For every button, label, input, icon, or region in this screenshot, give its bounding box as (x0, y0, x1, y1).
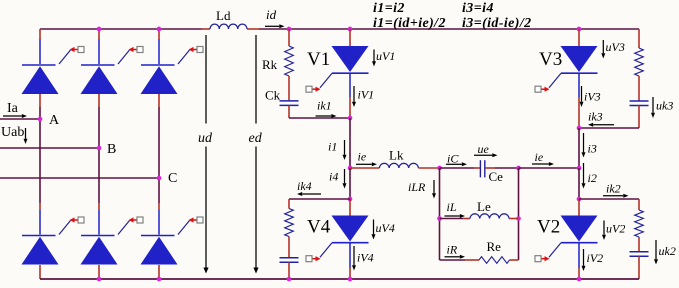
svg-text:iV3: iV3 (584, 90, 601, 104)
wire ik2 (579, 198, 639, 200)
capacitor Ce (480, 160, 484, 177)
wire col1 below thyristor (39, 94, 41, 107)
current iV2 arrow (582, 249, 586, 271)
wire col2 to bottom thyristor (98, 210, 100, 235)
wire col1 to bottom thyristor (39, 210, 41, 235)
label V1 (307, 49, 330, 70)
voltage ud arrow lower (203, 147, 208, 274)
label V2 (537, 217, 560, 238)
svg-text:Le: Le (477, 199, 491, 214)
gate bridge top 2 (118, 47, 143, 65)
inductor Le (470, 214, 509, 219)
wire Rk4-Ck4 lead (288, 237, 290, 259)
label Ce (489, 169, 504, 184)
junction V3 ik3 (577, 126, 582, 131)
junction rail bottom col3 (157, 277, 162, 282)
svg-text:Ld: Ld (216, 8, 231, 23)
junction V3 ie (577, 166, 582, 171)
svg-text:V3: V3 (539, 49, 562, 70)
wire ik3 (579, 127, 639, 129)
label ik4 (297, 179, 312, 193)
thyristor V3 (561, 46, 598, 73)
label uk3 (656, 99, 673, 113)
wire Re left lead (465, 259, 479, 261)
wire top rail left (40, 28, 202, 30)
label Ld (216, 8, 231, 23)
resistor Rk2 (635, 210, 644, 237)
wire V3 col mid (578, 128, 580, 168)
wire Re right lead (510, 259, 519, 261)
svg-text:C: C (168, 171, 177, 186)
gate bridge bottom 2 (118, 217, 143, 235)
gate bridge top 3 (178, 47, 203, 65)
svg-text:V1: V1 (307, 49, 330, 70)
current iC arrow (446, 162, 467, 166)
svg-text:Ck: Ck (265, 88, 281, 103)
label ud (198, 131, 213, 146)
gate bridge top 1 (59, 47, 84, 65)
gate V2 (535, 243, 561, 262)
junction top rail col2 (97, 27, 102, 32)
wire col2 phase to bottom (98, 148, 100, 203)
svg-text:V4: V4 (307, 217, 331, 238)
thyristor V4 (332, 216, 369, 243)
current id arrow (265, 24, 285, 28)
svg-text:i3: i3 (588, 142, 597, 156)
label A (49, 113, 60, 128)
label Ck (265, 88, 281, 103)
svg-text:iR: iR (447, 243, 458, 257)
voltage uV4 arrow (372, 220, 376, 240)
label uV3 (606, 40, 625, 54)
svg-text:ie: ie (358, 150, 367, 164)
current ik4 arrow (297, 192, 321, 196)
voltage uk2 arrow (654, 240, 658, 265)
svg-text:uV2: uV2 (606, 222, 625, 236)
junction top rail col3 (157, 27, 162, 32)
label iL (447, 200, 457, 214)
node A (38, 117, 43, 122)
wire col3 stub bottom (158, 203, 160, 210)
thyristor bridge bottom 1 (22, 236, 59, 265)
voltage uk3 arrow (651, 97, 655, 118)
label iC (447, 152, 459, 166)
label ik1 (317, 99, 332, 113)
junction load left mid (437, 216, 442, 221)
junction load right top (516, 166, 521, 171)
inductor Lk (379, 163, 418, 168)
label ie2 (535, 150, 544, 164)
wire V1 col mid (349, 118, 351, 168)
current i1 arrow (343, 140, 347, 160)
capacitor Ck2 (630, 252, 649, 256)
wire col2 to thyristor (98, 39, 100, 64)
svg-text:Ia: Ia (7, 101, 19, 116)
wire Ck2 bottom lead (638, 256, 640, 279)
wire ik1 (289, 117, 350, 119)
current Ia arrow (3, 114, 27, 118)
svg-text:id: id (266, 7, 277, 22)
thyristor bridge top 3 (141, 65, 178, 94)
junction rail bottom V4 (348, 277, 353, 282)
current i3 arrow (582, 133, 586, 158)
node B (97, 146, 102, 151)
wire phase B (0, 147, 99, 149)
thyristor bridge bottom 2 (81, 236, 118, 265)
wire Ck3 bottom lead (638, 106, 640, 129)
gate bridge bottom 1 (59, 217, 84, 235)
wire Lk right lead (418, 167, 439, 169)
wire Rk-Ck lead (288, 76, 290, 101)
label Ia (7, 101, 19, 116)
wire load right vertical (518, 168, 520, 260)
wire col1 anode stub (39, 29, 41, 39)
svg-text:i1: i1 (328, 140, 337, 154)
svg-text:V2: V2 (537, 217, 560, 238)
label ie (358, 150, 367, 164)
wire Ck bottom lead (288, 105, 290, 118)
label ed (249, 131, 263, 146)
junction rail bottom col2 (97, 277, 102, 282)
label iV3 (584, 90, 601, 104)
wire V1 cathode red (349, 97, 351, 118)
wire ik4 (289, 198, 350, 200)
capacitor Ck (280, 101, 299, 106)
wire top load mid (440, 167, 475, 169)
current ie2 arrow (532, 162, 554, 166)
current i2 arrow (582, 163, 586, 189)
junction V1 ie (348, 166, 353, 171)
svg-text:ue: ue (478, 142, 490, 156)
svg-text:i1=(id+ie)/2: i1=(id+ie)/2 (373, 16, 446, 31)
svg-text:i4: i4 (329, 170, 338, 184)
capacitor Ck4 (280, 258, 299, 263)
wire Rk2 top lead (638, 199, 640, 210)
current i4 arrow (343, 169, 347, 189)
svg-text:A: A (49, 113, 60, 128)
wire col3 to thyristor (158, 39, 160, 64)
thyristor V1 (332, 46, 369, 73)
svg-text:iV4: iV4 (357, 251, 374, 265)
wire col2 stub bottom (98, 203, 100, 210)
resistor Rk3 (635, 48, 644, 76)
label B (107, 142, 116, 157)
wire Le right lead (509, 218, 519, 220)
label ue (478, 142, 490, 156)
wire V3 cathode blue (578, 73, 580, 97)
wire Ld right lead (247, 28, 259, 30)
wire Rk4 top lead (288, 199, 290, 209)
wire ie lead (350, 167, 379, 169)
equation i1=(id+ie)/2 (373, 16, 446, 31)
label uk2 (659, 244, 676, 258)
svg-text:ie: ie (535, 150, 544, 164)
svg-text:Ce: Ce (489, 169, 504, 184)
wire V3 col low (578, 168, 580, 199)
current ik1 arrow (316, 114, 337, 118)
label ik2 (606, 182, 621, 196)
wire V4 cathode blue (349, 243, 351, 268)
junction V1 ik1 (348, 116, 353, 121)
wire V3 anode (578, 29, 580, 46)
wire V2 cathode blue (578, 243, 580, 268)
gate bridge bottom 3 (178, 217, 203, 235)
svg-text:Re: Re (487, 239, 502, 254)
svg-text:uk2: uk2 (659, 244, 676, 258)
current iL arrow (445, 214, 466, 218)
wire V1 col low (349, 168, 351, 199)
svg-text:iV1: iV1 (358, 88, 375, 102)
svg-text:iL: iL (447, 200, 457, 214)
wire load left vertical (439, 168, 441, 260)
current ik2 arrow (603, 194, 629, 198)
label iV4 (357, 251, 374, 265)
wire Ck4 bottom lead (288, 262, 290, 279)
label i4 (329, 170, 338, 184)
label V3 (539, 49, 562, 70)
svg-text:ed: ed (249, 131, 263, 146)
voltage uV1 arrow (372, 50, 376, 67)
current iR arrow (445, 255, 466, 259)
junction rail V3 (577, 27, 582, 32)
voltage ed line upper (255, 35, 257, 124)
svg-text:i3=(id-ie)/2: i3=(id-ie)/2 (462, 16, 532, 31)
resistor Rk (285, 46, 294, 76)
resistor Re (479, 257, 510, 264)
thyristor bridge top 2 (81, 65, 118, 94)
wire top rail mid (289, 28, 350, 30)
wire col2 cathode stub (98, 265, 100, 279)
wire V1 cathode blue (349, 73, 351, 97)
wire Rk3-Ck3 lead (638, 76, 640, 101)
node C (157, 176, 162, 181)
junction load left top (437, 166, 442, 171)
voltage uV2 arrow (602, 221, 606, 241)
svg-text:ik3: ik3 (588, 110, 603, 124)
wire ie right (519, 167, 580, 169)
label uV1 (376, 49, 395, 63)
svg-text:Rk: Rk (262, 57, 278, 72)
current iV3 arrow (580, 86, 584, 107)
wire col1 to phase (39, 107, 41, 119)
wire col1 cathode stub (39, 265, 41, 279)
wire V2 cathode red (578, 268, 580, 279)
wire Re left (440, 259, 466, 261)
resistor Rk4 (285, 209, 294, 237)
equation i3=i4 (462, 1, 494, 16)
svg-text:iLR: iLR (408, 180, 426, 194)
label uV4 (376, 221, 395, 235)
wire bottom rail (40, 278, 639, 280)
voltage ud line upper (205, 35, 207, 124)
junction rail Rk (287, 27, 292, 32)
label V4 (307, 217, 331, 238)
thyristor bridge bottom 3 (141, 236, 178, 265)
wire Le left (440, 218, 464, 220)
svg-text:iC: iC (447, 152, 459, 166)
wire Rk top lead (288, 29, 290, 46)
svg-text:Uab: Uab (1, 125, 24, 140)
label id (266, 7, 277, 22)
junction V4 ik4 (348, 197, 353, 202)
capacitor Ck3 (630, 101, 649, 106)
junction rail V1 (348, 27, 353, 32)
wire col3 phase to bottom (158, 178, 160, 203)
svg-text:uV1: uV1 (376, 49, 395, 63)
svg-text:ud: ud (198, 131, 213, 146)
wire col2 to phase (98, 107, 100, 148)
wire Le left lead (463, 218, 470, 220)
voltage ue arrow (474, 153, 498, 157)
wire col3 anode stub (158, 29, 160, 39)
wire col3 to bottom thyristor (158, 210, 160, 235)
wire top rail right (350, 28, 639, 30)
voltage Uab arrow (24, 128, 28, 144)
label Rk (262, 57, 278, 72)
current ik3 arrow (588, 123, 614, 127)
equation i1=i2 (373, 1, 405, 16)
svg-text:uV4: uV4 (376, 221, 395, 235)
wire Ce right lead (485, 167, 495, 169)
wire col2 anode stub (98, 29, 100, 39)
thyristor V2 (561, 216, 598, 243)
wire col1 stub bottom (39, 203, 41, 210)
wire col2 below thyristor (98, 94, 100, 107)
voltage ed arrow lower (253, 147, 258, 274)
label Lk (389, 148, 404, 163)
wire Ce left lead (474, 167, 480, 169)
wire col1 to thyristor (39, 39, 41, 64)
wire top load right (495, 167, 519, 169)
wire col3 to phase (158, 107, 160, 178)
gate V1 (306, 73, 332, 92)
voltage uV3 arrow (601, 40, 605, 59)
svg-text:iV2: iV2 (587, 251, 604, 265)
label i1 (328, 140, 337, 154)
label uV2 (606, 222, 625, 236)
svg-text:ik4: ik4 (297, 179, 312, 193)
label ik3 (588, 110, 603, 124)
gate V4 (306, 243, 332, 262)
svg-text:B: B (107, 142, 116, 157)
label C (168, 171, 177, 186)
svg-text:uV3: uV3 (606, 40, 625, 54)
equation i3=(id-ie)/2 (462, 16, 532, 31)
thyristor bridge top 1 (22, 65, 59, 94)
gate V3 (535, 73, 561, 92)
svg-text:ik2: ik2 (606, 182, 621, 196)
junction rail bottom V2 (577, 277, 582, 282)
wire V4 cathode red (349, 268, 351, 279)
current ie arrow (356, 162, 377, 166)
current iV4 arrow (352, 246, 356, 271)
label Le (477, 199, 491, 214)
inductor Ld (210, 24, 247, 29)
wire col3 below thyristor (158, 94, 160, 107)
junction V2 ik2 (577, 197, 582, 202)
label iLR (408, 180, 426, 194)
wire V3 cathode red (578, 97, 580, 128)
wire phase C (0, 177, 159, 179)
current iLR arrow (432, 180, 436, 199)
svg-text:uk3: uk3 (656, 99, 673, 113)
label Uab (1, 125, 24, 140)
wire phase A (0, 118, 40, 120)
label Re (487, 239, 502, 254)
label i2 (588, 171, 597, 185)
wire col1 phase to bottom (39, 119, 41, 203)
wire V4 anode (349, 199, 351, 216)
label i3 (588, 142, 597, 156)
wire col3 cathode stub (158, 265, 160, 279)
wire Rk2-Ck2 lead (638, 237, 640, 252)
junction load right mid (516, 216, 521, 221)
label iV1 (358, 88, 375, 102)
svg-text:i2: i2 (588, 171, 597, 185)
svg-text:i3=i4: i3=i4 (462, 1, 494, 16)
wire V2 anode (578, 199, 580, 216)
wire Ld left lead (202, 28, 210, 30)
current iV1 arrow (352, 86, 356, 107)
svg-text:Lk: Lk (389, 148, 404, 163)
wire top rail after Ld (259, 28, 289, 30)
junction rail bottom Ck4 (287, 277, 292, 282)
svg-text:ik1: ik1 (317, 99, 332, 113)
wire Rk3 top lead (638, 29, 640, 48)
wire V1 anode (349, 29, 351, 46)
label iR (447, 243, 458, 257)
svg-text:i1=i2: i1=i2 (373, 1, 405, 16)
label iV2 (587, 251, 604, 265)
